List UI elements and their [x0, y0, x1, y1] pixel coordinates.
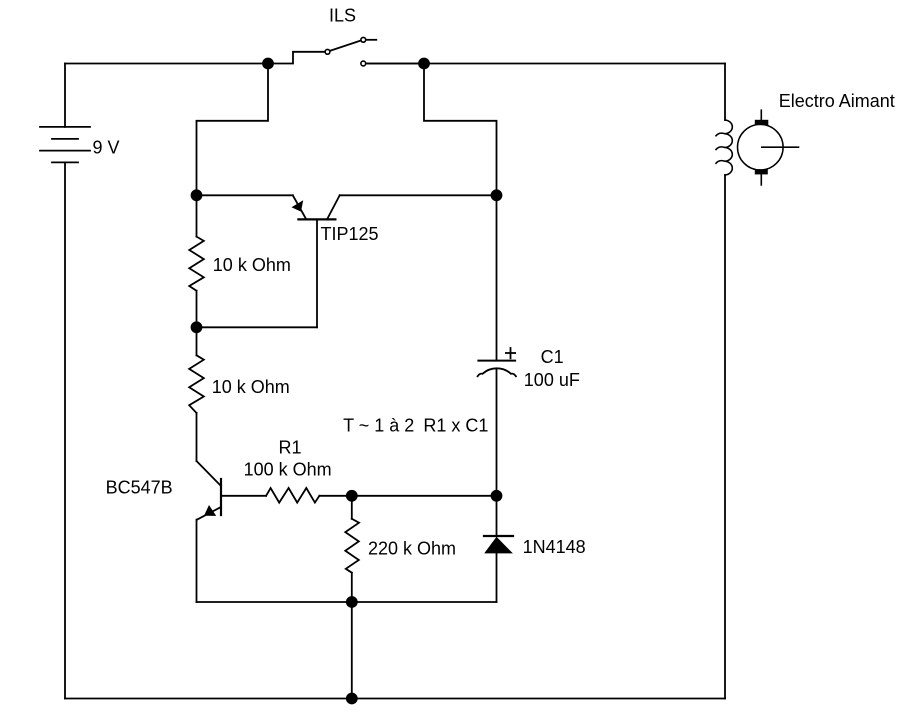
svg-text:C1: C1 — [541, 347, 564, 367]
wire node C to TIP125 emitter — [197, 194, 293, 196]
wire node E to TIP125 base — [197, 326, 318, 328]
resistor R1 100 k Ohm — [266, 488, 319, 503]
wire node F to node G — [352, 495, 497, 497]
node H dot (351.8,602) — [346, 596, 358, 608]
wire resistor R4 bottom to node H — [351, 573, 353, 602]
inductor L1 electro-aimant coil — [716, 120, 732, 175]
svg-text:220 k Ohm: 220 k Ohm — [368, 539, 456, 559]
motor brush top — [755, 120, 769, 125]
wire node E to resistor R3 top — [196, 327, 198, 355]
wire R1 to node F — [319, 495, 351, 497]
wire TIP125 collector to node D — [340, 194, 497, 196]
node A dot (268,63.5) — [262, 58, 274, 70]
wire battery top to top rail — [64, 64, 66, 127]
wire top rail right segment — [366, 63, 725, 65]
svg-text:ILS: ILS — [329, 5, 356, 25]
svg-text:10 k Ohm: 10 k Ohm — [212, 377, 290, 397]
motor brush bottom — [755, 169, 768, 174]
node F dot (351.8,495.8) — [346, 490, 358, 502]
svg-text:BC547B: BC547B — [106, 478, 173, 498]
wire right rail lower — [724, 175, 726, 699]
svg-text:T ~ 1 à 2: T ~ 1 à 2 — [343, 416, 414, 436]
svg-text:1N4148: 1N4148 — [523, 537, 586, 557]
battery B1 9V — [40, 127, 90, 162]
diode D1 1N4148 — [484, 496, 513, 602]
resistor R3 10 k Ohm — [189, 355, 204, 413]
wire resistor R2 bottom to node E — [196, 291, 198, 328]
wire top rail left segment — [65, 63, 268, 65]
wire ILS left dot down-left to node A column — [197, 64, 269, 196]
wire BC547B emitter down — [196, 520, 198, 602]
svg-text:100 uF: 100 uF — [524, 370, 580, 390]
capacitor C1 — [478, 195, 516, 496]
switch ILS — [268, 37, 424, 66]
motor stub bottom — [760, 174, 762, 185]
wire node F to resistor R4 top — [351, 496, 353, 519]
node D dot (496.5,195.3) — [491, 189, 503, 201]
wire battery bottom / left rail down — [64, 162, 66, 698]
node E dot (196.5,327.3) — [191, 321, 203, 333]
wire ILS right dot down-right to C1 column — [424, 64, 497, 196]
wire BC547B base to R1 — [221, 495, 266, 497]
wire node C to resistor R2 top — [196, 195, 198, 236]
node C dot (196.5,195.3) — [191, 189, 203, 201]
C1 plus sign — [506, 348, 515, 358]
wire right rail upper — [724, 64, 726, 121]
resistor R2 10 k Ohm — [189, 237, 204, 291]
svg-text:R1: R1 — [279, 438, 302, 458]
motor stub top — [760, 110, 762, 120]
wire node H down to bottom rail — [351, 602, 353, 699]
transistor BC547B — [197, 461, 222, 520]
resistor R4 220 k Ohm — [345, 519, 359, 573]
wire resistor R3 bottom to BC547B collector — [196, 413, 198, 461]
transistor TIP125 — [292, 195, 340, 327]
node I dot (351.8,698.5) — [346, 693, 358, 705]
motor symbol circle — [738, 124, 784, 170]
svg-text:100 k Ohm: 100 k Ohm — [244, 460, 332, 480]
node B dot (424,63.5) — [418, 58, 430, 70]
svg-text:10 k Ohm: 10 k Ohm — [213, 255, 291, 275]
svg-text:9 V: 9 V — [93, 138, 120, 158]
svg-text:TIP125: TIP125 — [321, 224, 379, 244]
wire bottom rail — [65, 698, 725, 700]
motor axis line — [762, 146, 799, 148]
svg-text:Electro Aimant: Electro Aimant — [779, 91, 895, 111]
wire bottom link left (emitter column to diode column) — [197, 601, 497, 603]
node G dot (496.5,495.8) — [491, 490, 503, 502]
svg-text:R1 x C1: R1 x C1 — [423, 416, 488, 436]
